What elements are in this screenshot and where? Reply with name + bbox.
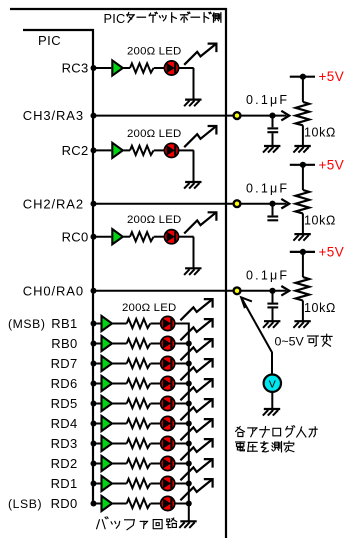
svg-text:+5V: +5V (319, 244, 345, 259)
wire buffer to resistor (113, 503, 127, 505)
light arrow (184, 212, 216, 233)
wire resistor to LED (151, 343, 161, 345)
wire resistor to LED (154, 236, 165, 238)
wire LED to ground (193, 150, 195, 181)
shared LED ground bus (188, 323, 190, 521)
svg-text:CH3/RA3: CH3/RA3 (23, 108, 84, 123)
potentiometer VR3 10kΩ (296, 277, 310, 300)
board boundary top line (10, 8, 227, 10)
svg-text:(MSB): (MSB) (8, 317, 46, 331)
label バッファ回路 (97, 517, 177, 530)
wire RD4 input (93, 423, 101, 425)
svg-text:RD0: RD0 (51, 496, 78, 511)
buffer U7 (102, 376, 113, 391)
wire RD2 input (93, 463, 101, 465)
LED D13 (161, 496, 175, 510)
svg-text:RD4: RD4 (51, 416, 78, 431)
junction (91, 361, 97, 367)
wire LED output (179, 67, 194, 69)
wire RD5 input (93, 403, 101, 405)
wire LED output (175, 463, 189, 465)
node connector (234, 200, 241, 207)
wire buffer to resistor (113, 403, 127, 405)
wire buffer to resistor (113, 363, 127, 365)
wire RB0 input (93, 343, 101, 345)
wire resistor to LED (151, 443, 161, 445)
light arrow (180, 419, 212, 440)
svg-text:200Ω LED: 200Ω LED (127, 214, 181, 226)
light arrow (180, 479, 212, 500)
node connector (234, 287, 241, 294)
label 電圧を測定 (236, 441, 294, 452)
junction (91, 501, 97, 507)
LED D2 (164, 143, 178, 157)
wire LED output (175, 363, 189, 365)
svg-text:RD6: RD6 (51, 376, 78, 391)
wire buffer to resistor (113, 343, 127, 345)
PIC bus line (92, 29, 94, 504)
buffer U10 (102, 436, 113, 451)
junction (91, 461, 97, 467)
wire +5V to pot (302, 165, 304, 190)
LED D11 (161, 456, 175, 470)
ground (184, 100, 201, 107)
buffer U3 (112, 229, 123, 244)
svg-text:RD3: RD3 (51, 436, 78, 451)
LED D9 (161, 416, 175, 430)
svg-text:0.1μF: 0.1μF (246, 181, 289, 195)
wire analog CH to potentiometer (94, 290, 287, 292)
svg-text:RD1: RD1 (51, 476, 78, 491)
wire buffer to resistor (113, 443, 127, 445)
wire junction to capacitor (272, 291, 274, 303)
buffer U13 (102, 496, 113, 511)
svg-text:RC3: RC3 (62, 61, 89, 76)
resistor R5 200Ω (127, 339, 151, 348)
ground cap (263, 321, 280, 328)
wire capacitor to ground (272, 308, 274, 320)
capacitor C3 0.1μF (267, 304, 278, 308)
svg-text:RD5: RD5 (51, 396, 78, 411)
junction (91, 341, 97, 347)
LED D8 (161, 396, 175, 410)
resistor R3 200Ω (130, 232, 154, 241)
wire junction to capacitor (272, 204, 274, 216)
wire resistor to LED (151, 463, 161, 465)
label 0~5V可変 (275, 334, 333, 348)
buffer U8 (102, 396, 113, 411)
LED D1 (164, 61, 178, 75)
wire RC3 input (93, 67, 111, 69)
junction (91, 113, 97, 119)
svg-text:(LSB): (LSB) (8, 497, 42, 511)
LED D5 (161, 336, 175, 350)
wire buffer to resistor (113, 323, 127, 325)
junction (91, 201, 97, 207)
junction (91, 381, 97, 387)
junction (186, 461, 192, 467)
svg-text:0.1μF: 0.1μF (246, 268, 289, 282)
resistor R2 200Ω (130, 146, 154, 155)
wire LED output (175, 403, 189, 405)
ground shared (179, 521, 196, 528)
resistor R1 200Ω (130, 63, 154, 72)
svg-text:10kΩ: 10kΩ (304, 214, 336, 228)
junction (186, 361, 192, 367)
wire probe elbow down (271, 352, 273, 374)
LED D7 (161, 376, 175, 390)
LED D3 (164, 230, 178, 244)
svg-text:0~5V: 0~5V (275, 335, 305, 349)
wire resistor to LED (151, 403, 161, 405)
svg-text:RD7: RD7 (51, 356, 78, 371)
junction (91, 321, 97, 327)
LED D10 (161, 436, 175, 450)
junction (91, 65, 97, 71)
PIC box top line (23, 29, 94, 31)
resistor R9 200Ω (127, 419, 151, 428)
wire capacitor to ground (272, 133, 274, 145)
svg-text:PIC: PIC (38, 33, 61, 48)
node connector (234, 112, 241, 119)
buffer U12 (102, 476, 113, 491)
wire LED to ground (193, 237, 195, 268)
wire analog CH to potentiometer (94, 203, 287, 205)
svg-text:10kΩ: 10kΩ (304, 301, 336, 315)
buffer U6 (102, 356, 113, 371)
svg-text:200Ω LED: 200Ω LED (127, 45, 181, 57)
buffer U4 (102, 316, 113, 331)
svg-text:10kΩ: 10kΩ (304, 126, 336, 140)
buffer U9 (102, 416, 113, 431)
wire analog CH to potentiometer (94, 115, 287, 117)
svg-text:RD2: RD2 (51, 456, 78, 471)
+5V supply (290, 74, 315, 80)
svg-text:CH0/RA0: CH0/RA0 (23, 283, 84, 298)
wire buffer to resistor (113, 383, 127, 385)
light arrow (180, 359, 212, 380)
light arrow (184, 126, 216, 147)
wire RD6 input (93, 383, 101, 385)
buffer U5 (102, 336, 113, 351)
svg-text:CH2/RA2: CH2/RA2 (23, 196, 84, 211)
junction (91, 421, 97, 427)
junction (186, 421, 192, 427)
svg-text:+5V: +5V (319, 69, 345, 84)
buffer U2 (112, 143, 123, 158)
light arrow (180, 339, 212, 360)
resistor R10 200Ω (127, 439, 151, 448)
junction (186, 481, 192, 487)
wire LED output (175, 383, 189, 385)
junction (91, 441, 97, 447)
wire LED to ground (193, 68, 195, 99)
wire resistor to LED (154, 67, 165, 69)
wire resistor to LED (151, 423, 161, 425)
wire RD0 input (93, 503, 101, 505)
wire LED output (179, 149, 194, 151)
svg-text:200Ω LED: 200Ω LED (127, 128, 181, 140)
wire LED output (175, 483, 189, 485)
svg-text:RC2: RC2 (62, 143, 89, 158)
ground pot (293, 234, 310, 241)
ground pot (293, 321, 310, 328)
capacitor C1 0.1μF (267, 128, 278, 132)
light arrow (180, 299, 212, 320)
junction (186, 341, 192, 347)
wire buffer to resistor (113, 463, 127, 465)
svg-text:0.1μF: 0.1μF (246, 93, 289, 107)
wiper arrowhead (281, 286, 289, 296)
resistor R7 200Ω (127, 379, 151, 388)
light arrow (180, 379, 212, 400)
svg-text:RB0: RB0 (51, 336, 77, 351)
wire RB1 input (93, 323, 101, 325)
wire resistor to LED (151, 503, 161, 505)
wire RD3 input (93, 443, 101, 445)
svg-text:V: V (269, 378, 276, 390)
probe arrow to CH0 node (241, 297, 272, 352)
resistor R12 200Ω (127, 479, 151, 488)
svg-text:200Ω LED: 200Ω LED (122, 302, 176, 314)
resistor R4 200Ω (127, 319, 151, 328)
svg-text:RB1: RB1 (51, 316, 77, 331)
potentiometer VR2 10kΩ (296, 190, 310, 213)
junction (91, 401, 97, 407)
wire LED output (175, 503, 189, 505)
light arrow (180, 399, 212, 420)
junction (91, 481, 97, 487)
svg-text:PIC: PIC (104, 11, 126, 26)
junction (91, 234, 97, 240)
buffer U1 (112, 60, 123, 75)
resistor R8 200Ω (127, 399, 151, 408)
resistor R6 200Ω (127, 359, 151, 368)
junction (186, 501, 192, 507)
voltmeter M1 (264, 375, 281, 392)
wire buffer to resistor (123, 149, 130, 151)
wire buffer to resistor (123, 236, 130, 238)
wire resistor to LED (151, 383, 161, 385)
board boundary right line (225, 8, 227, 538)
wire buffer to resistor (113, 483, 127, 485)
light arrow (184, 44, 216, 65)
resistor R11 200Ω (127, 459, 151, 468)
LED D4 (161, 316, 175, 330)
wire pot to ground (302, 213, 304, 233)
junction (186, 441, 192, 447)
wire resistor to LED (154, 149, 165, 151)
buffer U11 (102, 456, 113, 471)
LED D6 (161, 356, 175, 370)
svg-text:+5V: +5V (319, 157, 345, 172)
junction (186, 381, 192, 387)
wire voltmeter to ground (271, 392, 273, 408)
ground (184, 268, 201, 275)
wire LED output (179, 236, 194, 238)
wire RC2 input (93, 149, 111, 151)
wiper arrowhead (281, 111, 289, 121)
wire LED output (175, 343, 189, 345)
wire pot to ground (302, 125, 304, 145)
wire resistor to LED (151, 483, 161, 485)
resistor R13 200Ω (127, 499, 151, 508)
wire resistor to LED (151, 363, 161, 365)
light arrow (180, 319, 212, 340)
potentiometer VR1 10kΩ (296, 102, 310, 125)
junction (269, 288, 275, 294)
title label PICターゲットボード側 (104, 11, 221, 26)
wire +5V to pot (302, 252, 304, 277)
ground cap (263, 146, 280, 153)
wire RD1 input (93, 483, 101, 485)
capacitor C2 0.1μF (267, 217, 278, 221)
wire buffer to resistor (123, 67, 130, 69)
junction (269, 113, 275, 119)
wire LED output (175, 443, 189, 445)
light arrow (180, 459, 212, 480)
wire +5V to pot (302, 77, 304, 102)
LED D12 (161, 476, 175, 490)
svg-text:RC0: RC0 (62, 229, 89, 244)
wiper arrowhead (281, 199, 289, 209)
wire RC0 input (93, 236, 111, 238)
light arrow (180, 439, 212, 460)
+5V supply (290, 249, 315, 255)
wire RD7 input (93, 363, 101, 365)
wire pot to ground (302, 301, 304, 321)
wire resistor to LED (151, 323, 161, 325)
junction (91, 147, 97, 153)
wire junction to capacitor (272, 116, 274, 128)
junction (186, 401, 192, 407)
+5V supply (290, 162, 315, 168)
wire buffer to resistor (113, 423, 127, 425)
ground voltmeter (263, 409, 280, 416)
ground pot (293, 146, 310, 153)
junction (269, 201, 275, 207)
label 各アナログ入力 (236, 426, 318, 437)
ground (184, 182, 201, 189)
junction (91, 288, 97, 294)
wire LED output (175, 323, 189, 325)
wire LED output (175, 423, 189, 425)
